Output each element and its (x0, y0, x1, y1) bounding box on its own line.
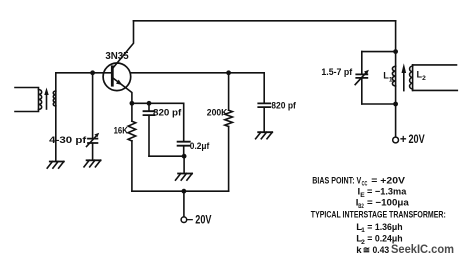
wire tank bottom bar (362, 103, 396, 105)
capacitor C5 1.5-7pf wires (361, 52, 363, 104)
wire rail to +20V terminal (395, 104, 397, 137)
ground under C1 (84, 160, 101, 167)
svg-text:16K: 16K (114, 126, 128, 137)
svg-text:≅ 0.43: ≅ 0.43 (363, 245, 389, 256)
transformer T1 primary winding (15, 88, 42, 112)
transistor Q1 emitter lead (112, 78, 132, 104)
ground under C4 (256, 132, 273, 139)
svg-text:= +20V: = +20V (371, 175, 405, 186)
resistor R2 200K (225, 73, 233, 191)
resistor R1 16K (128, 103, 136, 191)
transistor Q1 base bar (111, 67, 114, 85)
bias note line 7 k (356, 245, 389, 256)
transformer T1 coupling arrow (44, 88, 48, 110)
node -20V tap dot (182, 189, 187, 194)
inductor L2 (410, 65, 413, 91)
bias note line 2 IE (358, 187, 407, 199)
svg-text:SeekIC.com: SeekIC.com (391, 244, 454, 256)
transistor Q1 3N35 body circle (103, 63, 131, 91)
terminal -20V open circle (181, 217, 187, 223)
wire stub to -20V terminal (183, 191, 185, 217)
transformer T1 secondary winding (53, 73, 56, 162)
inductor L1 (392, 52, 395, 104)
wire tank top bar (362, 51, 396, 53)
wire emitter node to bypass corner (132, 102, 184, 104)
svg-text:TYPICAL INTERSTAGE TRANSFORMER: TYPICAL INTERSTAGE TRANSFORMER: (311, 209, 446, 220)
ground under secondary (47, 162, 64, 169)
capacitor C1 plates (88, 139, 97, 143)
wire bottom rail (132, 190, 229, 192)
bias note line 1 Vcc (312, 175, 405, 187)
wire stub to ground (183, 156, 185, 173)
ground under bypass network (176, 174, 193, 181)
svg-text:−: − (187, 214, 194, 226)
svg-text:k: k (356, 245, 362, 256)
svg-text:= −1.3ma: = −1.3ma (367, 187, 407, 198)
node tank bottom junction dot (393, 102, 398, 107)
svg-text:+: + (400, 134, 407, 146)
capacitor C1 4-30pf wires (92, 73, 94, 160)
capacitor C3 0.2uf wires (183, 103, 185, 156)
svg-text:= 1.36μh: = 1.36μh (367, 222, 402, 233)
svg-text:1.5-7 pf: 1.5-7 pf (321, 67, 353, 78)
capacitor C4 820pf wires (263, 73, 265, 132)
capacitor C2 plates (144, 111, 155, 115)
svg-text:= −100μa: = −100μa (367, 198, 409, 209)
node base junction dot (90, 70, 95, 75)
svg-text:BIAS POINT: V: BIAS POINT: V (312, 175, 361, 186)
svg-text:200K: 200K (207, 108, 228, 118)
node base2 200K tap dot (226, 70, 231, 75)
node tank top junction dot (393, 49, 398, 54)
terminal +20V open circle (393, 137, 399, 143)
svg-text:0.2μf: 0.2μf (190, 141, 210, 151)
bias note line 6 L2 (356, 234, 403, 246)
output transformer coupling arrow (402, 63, 407, 90)
node emitter junction dot (130, 101, 135, 106)
svg-text:E: E (360, 192, 365, 199)
node 820pf tap dot (147, 101, 152, 106)
svg-text:820 pf: 820 pf (153, 108, 182, 118)
capacitor C3 plates (178, 142, 190, 146)
transistor Q1 collector lead to top rail (112, 21, 133, 69)
wire right vertical rail (395, 21, 397, 52)
wire bypass bottom bar (149, 155, 184, 157)
wire L2 top output lead (413, 64, 457, 66)
bias note line 5 L1 (356, 222, 403, 234)
capacitor C4 plates (258, 103, 270, 107)
capacitor C5 variable arrow (355, 70, 369, 85)
transistor Q1 emitter arrowhead (116, 80, 122, 85)
svg-text:4-30 pf: 4-30 pf (49, 135, 87, 146)
svg-text:820 pf: 820 pf (271, 100, 297, 110)
bias note line 3 IB2 (356, 198, 410, 210)
svg-text:20V: 20V (195, 214, 211, 226)
svg-text:3N35: 3N35 (105, 51, 129, 62)
node bypass ground junction dot (182, 154, 187, 159)
wire base2 to right network (131, 72, 265, 74)
wire top rail collector to tank (134, 20, 396, 22)
capacitor C1 variable arrow (87, 133, 100, 147)
capacitor C2 820pf wires (148, 103, 150, 156)
wire secondary top to transistor base (56, 72, 113, 74)
capacitor C5 plates (356, 74, 367, 78)
wire L2 bottom output lead (413, 89, 458, 91)
svg-text:20V: 20V (409, 134, 425, 146)
